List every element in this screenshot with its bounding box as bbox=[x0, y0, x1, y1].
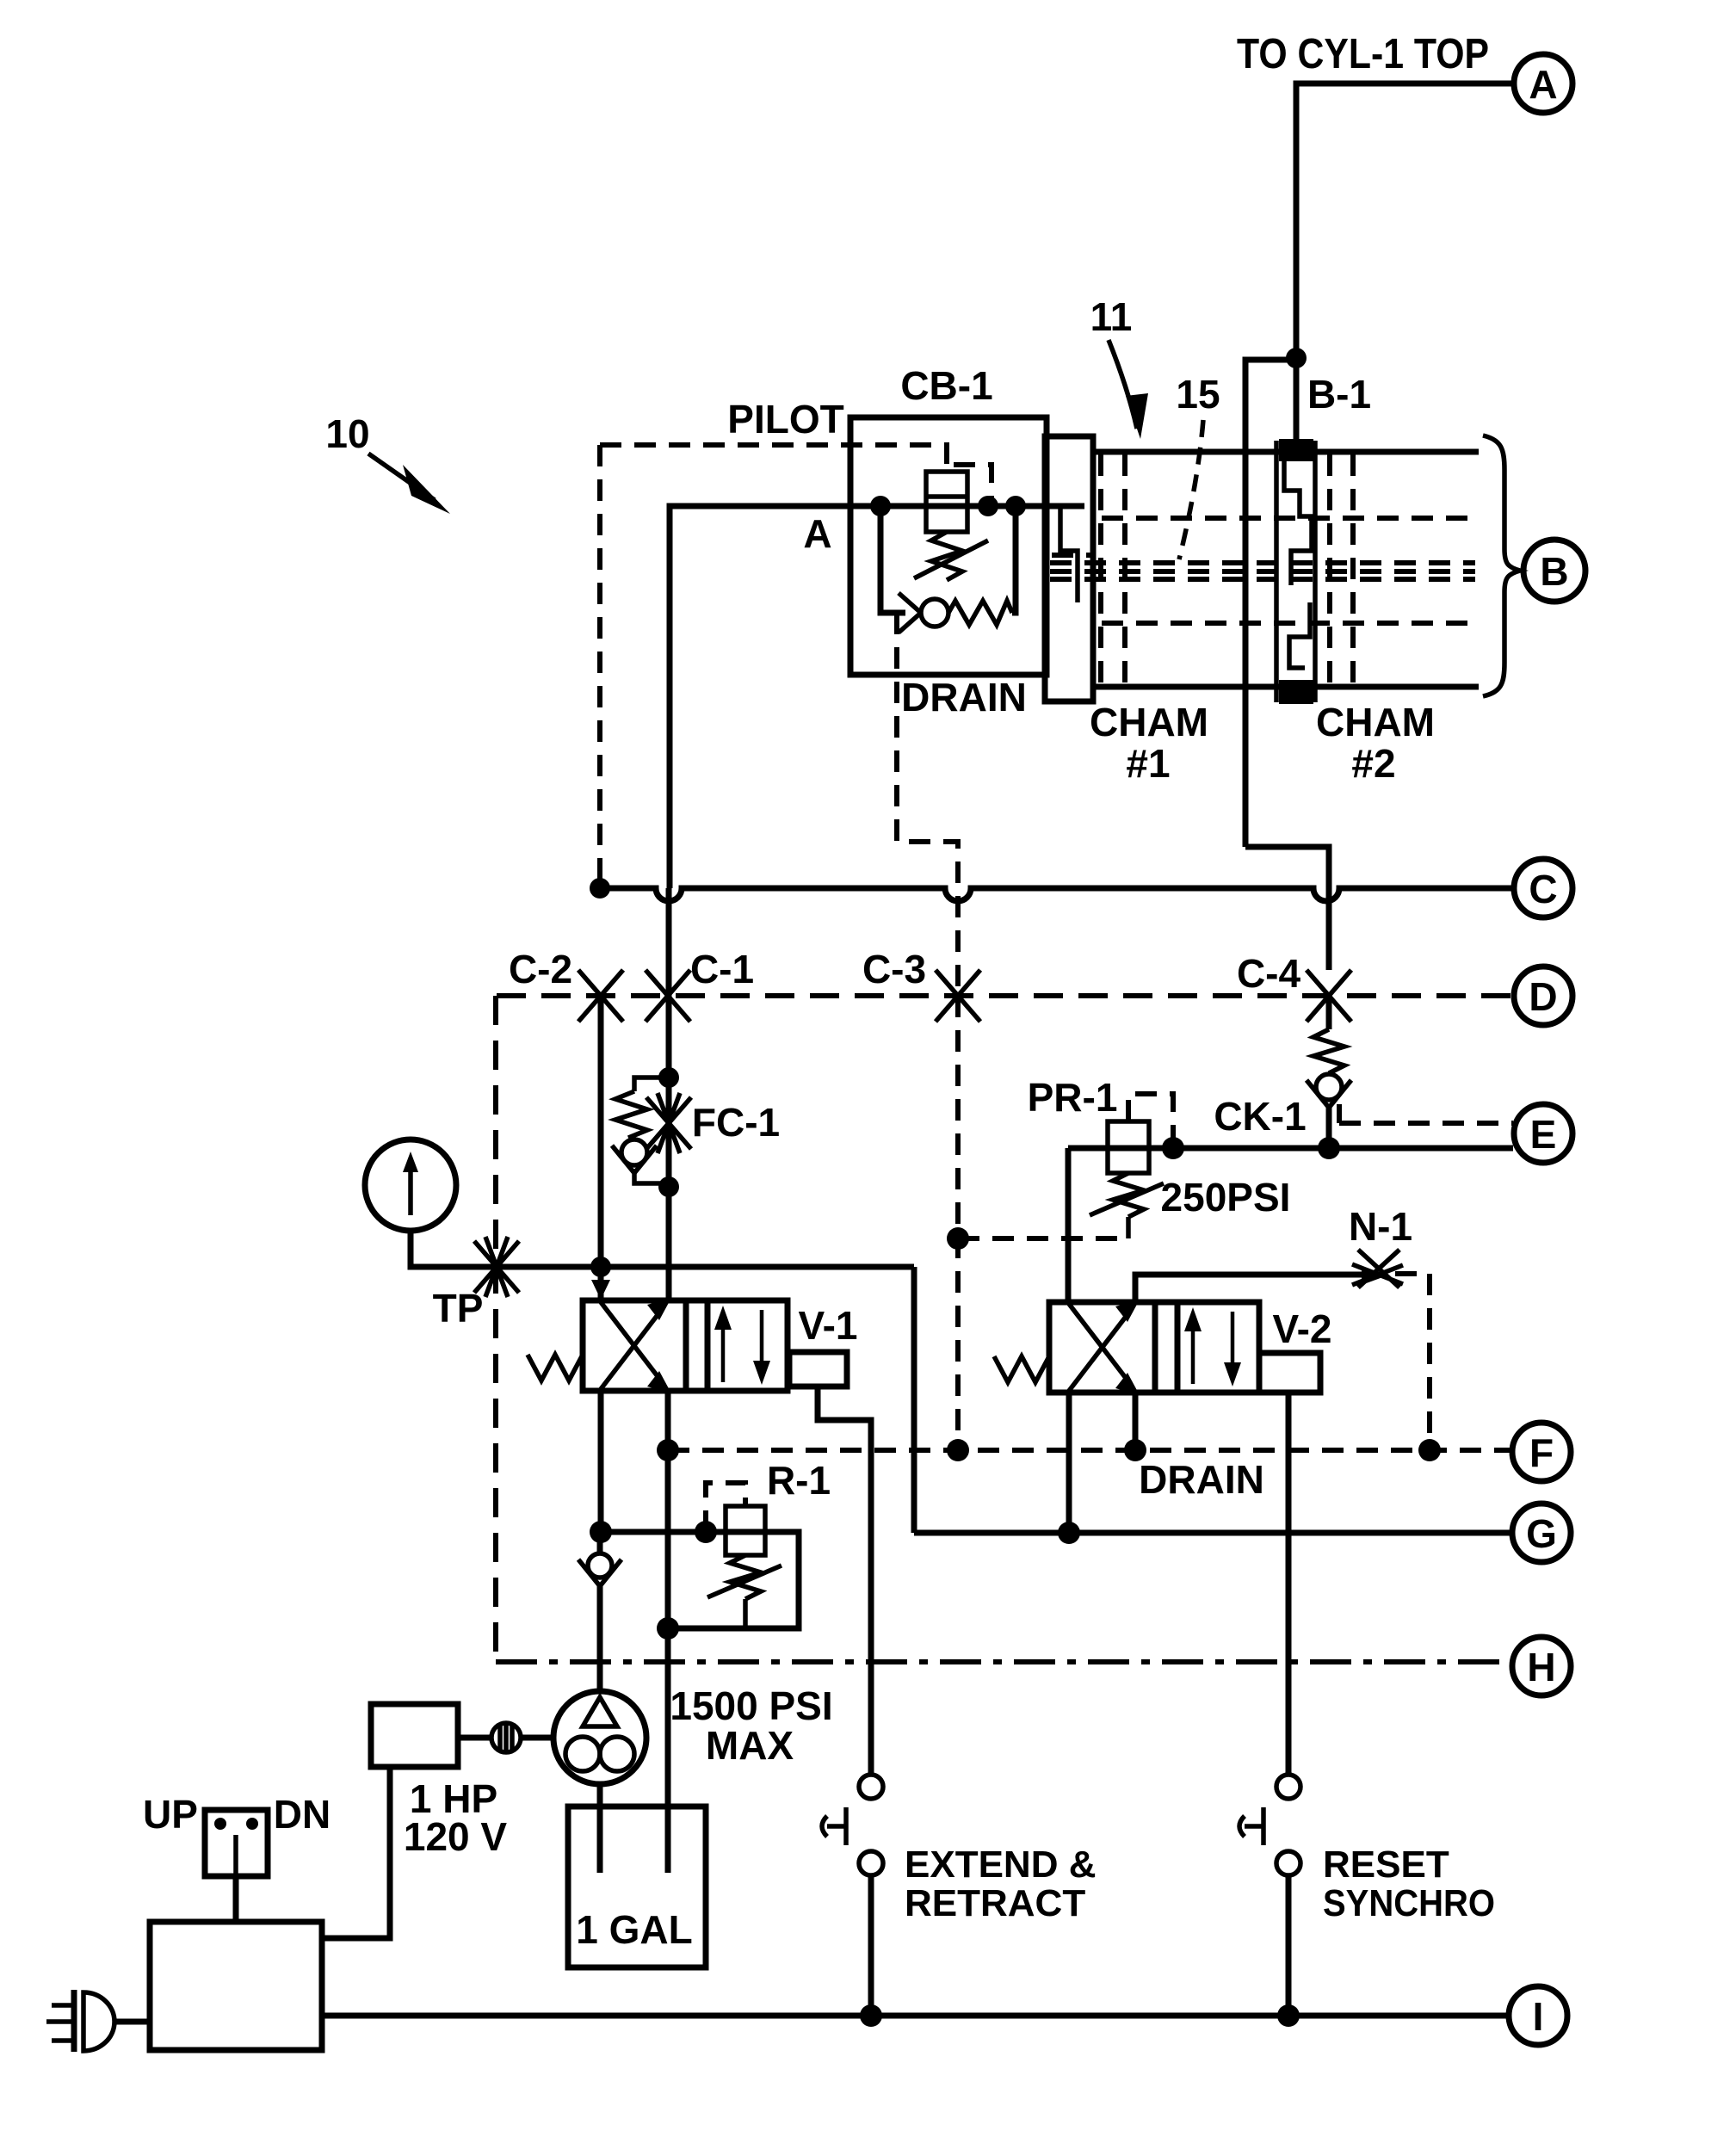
svg-text:E: E bbox=[1530, 1112, 1557, 1157]
node dot I extend bbox=[860, 2004, 882, 2027]
wire C-2 vertical solid bbox=[598, 996, 604, 1267]
relief valve R-1 body bbox=[726, 1506, 765, 1555]
suction check valve bbox=[578, 1532, 621, 1692]
dashed E branch bbox=[1339, 1104, 1513, 1123]
R-1 spring tail bbox=[743, 1599, 748, 1628]
fitting C-2 bbox=[578, 970, 623, 1022]
R-1 spring bbox=[730, 1555, 761, 1599]
wire B-1 line down to gland bbox=[1294, 358, 1300, 444]
svg-text:10: 10 bbox=[325, 411, 369, 456]
wire E line bbox=[1068, 1146, 1513, 1152]
node dot F at V-1 tank bbox=[657, 1439, 679, 1461]
node dot pilot-C junction bbox=[590, 878, 610, 899]
wire to port A bbox=[1296, 83, 1514, 358]
pilot dashed line bbox=[600, 445, 947, 472]
fitting C-4 bbox=[1307, 970, 1351, 1022]
svg-text:#2: #2 bbox=[1351, 741, 1395, 786]
CB-1 right branch wire bbox=[1012, 506, 1016, 613]
port circle A bbox=[1514, 54, 1572, 113]
wire down to G line bbox=[911, 1267, 917, 1533]
svg-text:C-1: C-1 bbox=[690, 947, 754, 991]
V-2 crossed arrows bbox=[1069, 1300, 1140, 1395]
svg-text:FC-1: FC-1 bbox=[692, 1100, 780, 1145]
wire H line dash-dot bbox=[496, 1659, 1512, 1664]
V-1 straight arrows bbox=[714, 1306, 770, 1385]
label 11 with arrow bbox=[1090, 294, 1148, 439]
control box bbox=[150, 1922, 322, 2050]
CB-1 check spring bbox=[948, 601, 1012, 625]
cylinder body bottom wall bbox=[1093, 684, 1479, 690]
svg-text:C-4: C-4 bbox=[1237, 951, 1301, 996]
CB-1 valve element bbox=[926, 472, 967, 532]
V-1 spring bbox=[528, 1355, 583, 1380]
svg-text:TP: TP bbox=[433, 1286, 484, 1331]
label 1500 PSI MAX bbox=[670, 1683, 832, 1768]
head block port channel bbox=[1052, 506, 1091, 602]
label CHAM #1 bbox=[1090, 700, 1208, 786]
tank return stub bbox=[665, 1806, 671, 1873]
svg-text:C-2: C-2 bbox=[509, 947, 572, 991]
pushbutton extend bbox=[822, 1775, 883, 2016]
node dot on C-3 dashed bbox=[947, 1227, 969, 1250]
wire selector stem bbox=[233, 1876, 239, 1922]
CB-1 check valve bbox=[899, 593, 948, 633]
B-1 gland top seal bbox=[1279, 439, 1313, 461]
svg-text:DN: DN bbox=[274, 1792, 331, 1837]
svg-text:RETRACT: RETRACT bbox=[905, 1882, 1085, 1924]
wire D line dashed bbox=[497, 993, 1514, 998]
cylinder end brace bbox=[1483, 435, 1520, 696]
V-1 solenoid bbox=[789, 1352, 847, 1386]
gauge stem bbox=[411, 1231, 914, 1267]
valve V-1 body bbox=[583, 1300, 788, 1391]
svg-text:N-1: N-1 bbox=[1349, 1204, 1412, 1249]
V-1 crossed arrows bbox=[601, 1298, 671, 1393]
wire V-1 P port upper bbox=[598, 1267, 604, 1300]
svg-text:D: D bbox=[1529, 974, 1557, 1019]
wire I line bbox=[322, 2013, 1509, 2019]
svg-text:RESET: RESET bbox=[1323, 1843, 1449, 1886]
pushbutton reset bbox=[1239, 1775, 1300, 2016]
node dot PR-1 pilot junction bbox=[1162, 1137, 1184, 1159]
svg-text:DRAIN: DRAIN bbox=[1139, 1457, 1264, 1502]
FC-1 bypass spring bbox=[615, 1091, 647, 1138]
pressure gauge bbox=[365, 1139, 456, 1231]
B-1 gland left wall bbox=[1274, 441, 1279, 702]
wire from junction to chamber 2 column bbox=[1245, 360, 1296, 847]
FC-1 bypass wire top bbox=[634, 1078, 669, 1091]
node A line corner bbox=[670, 506, 883, 888]
flow arrow into V-1 bbox=[591, 1280, 610, 1300]
svg-text:SYNCHRO: SYNCHRO bbox=[1323, 1882, 1495, 1924]
CB-1 left branch wire bbox=[880, 506, 905, 613]
node dot FC-1 top bbox=[658, 1067, 679, 1088]
node dot pump line left bbox=[590, 1521, 612, 1543]
node junction at B-1 line bbox=[1286, 348, 1307, 368]
svg-text:A: A bbox=[803, 511, 831, 556]
node dot F at N-1 bbox=[1418, 1439, 1441, 1461]
svg-text:B: B bbox=[1540, 549, 1568, 594]
wire C-3 dashed lower bbox=[955, 996, 961, 1450]
svg-text:R-1: R-1 bbox=[767, 1458, 831, 1503]
label EXTEND & RETRACT bbox=[905, 1843, 1096, 1924]
piston 2 seal dashed left bbox=[1327, 454, 1332, 684]
V-2 straight arrows bbox=[1184, 1307, 1241, 1386]
port circle F bbox=[1512, 1423, 1571, 1481]
CB-1 adjust arrow bbox=[914, 540, 988, 578]
needle valve N-1 star bbox=[1352, 1250, 1403, 1288]
svg-text:DRAIN: DRAIN bbox=[901, 675, 1027, 719]
wire V-1 solenoid to switch bbox=[818, 1386, 871, 1775]
node dot CK-1 E junction bbox=[1318, 1137, 1340, 1159]
wire V-2 bottom to F bbox=[1133, 1393, 1139, 1450]
CK-1 check valve bbox=[1307, 1074, 1351, 1108]
port circle D bbox=[1514, 967, 1572, 1025]
piston rod dashed lines bbox=[1050, 563, 1475, 579]
B-1 gland lower channel bbox=[1289, 602, 1310, 668]
label RESET SYNCHRO bbox=[1323, 1843, 1495, 1924]
wire V-2 bottom left to G bbox=[1066, 1393, 1072, 1533]
CB-1 pilot sense dashed bbox=[954, 465, 992, 499]
wire left dashed vertical D to H bbox=[493, 996, 498, 1662]
svg-text:I: I bbox=[1533, 1994, 1544, 2039]
label 10 with arrow bbox=[325, 411, 450, 514]
node dot A-CB1 left bbox=[870, 496, 891, 516]
wire V-2 solenoid to switch bbox=[1286, 1393, 1292, 1775]
cylinder body top wall bbox=[1093, 449, 1479, 455]
svg-text:CK-1: CK-1 bbox=[1214, 1094, 1306, 1139]
dashed N-1 to F bbox=[1395, 1274, 1430, 1450]
CB-1 spring bbox=[931, 532, 962, 580]
svg-text:C-3: C-3 bbox=[862, 947, 926, 991]
svg-text:MAX: MAX bbox=[706, 1723, 794, 1768]
label 1 HP 120 V bbox=[404, 1776, 508, 1859]
wire pump pressure line bbox=[601, 1532, 799, 1628]
svg-text:V-2: V-2 bbox=[1272, 1306, 1331, 1351]
label 15 with leader bbox=[1176, 372, 1220, 559]
wire E to V-2 bbox=[1066, 1148, 1072, 1302]
svg-text:B-1: B-1 bbox=[1307, 372, 1371, 417]
wire check to E junction bbox=[1326, 1104, 1332, 1148]
port circle G bbox=[1512, 1504, 1571, 1562]
node dot CB1 right1 bbox=[978, 496, 998, 516]
svg-text:1 GAL: 1 GAL bbox=[576, 1907, 692, 1952]
wire C line with hops bbox=[600, 888, 1514, 901]
port circle E bbox=[1514, 1104, 1572, 1163]
fitting C-3 bbox=[936, 970, 980, 1022]
svg-text:CB-1: CB-1 bbox=[900, 363, 992, 408]
test point TP star bbox=[474, 1237, 519, 1297]
PR-1 adjust arrow bbox=[1090, 1183, 1164, 1215]
cylinder bore lower dashed bbox=[1102, 621, 1473, 626]
piston 1 seal dashed left bbox=[1098, 454, 1103, 684]
svg-text:EXTEND &: EXTEND & bbox=[905, 1843, 1096, 1886]
svg-text:PR-1: PR-1 bbox=[1028, 1075, 1118, 1120]
node dot TP line junction bbox=[590, 1257, 611, 1277]
dashed PR-1 drain to C-3 bbox=[958, 1236, 1128, 1241]
wire C-1 vertical bbox=[666, 888, 672, 1300]
piston 1 seal dashed right bbox=[1122, 454, 1127, 684]
CK-1 spring bbox=[1313, 1029, 1344, 1073]
svg-text:G: G bbox=[1526, 1511, 1557, 1556]
FC-1 bypass wire bottom bbox=[634, 1169, 669, 1183]
port circle I bbox=[1509, 1986, 1567, 2045]
counterbalance valve CB-1 body bbox=[850, 417, 1047, 675]
motor coupling bbox=[458, 1723, 553, 1752]
wire V-1 bottom left port bbox=[598, 1391, 604, 1532]
port circle B bbox=[1523, 540, 1585, 602]
hydraulic pump bbox=[553, 1691, 646, 1784]
B-1 gland bottom seal bbox=[1279, 680, 1313, 704]
B-1 gland upper channel bbox=[1284, 461, 1312, 585]
svg-text:250PSI: 250PSI bbox=[1161, 1175, 1291, 1220]
svg-text:F: F bbox=[1529, 1430, 1554, 1475]
svg-text:PILOT: PILOT bbox=[727, 397, 843, 442]
node dot R-1 inlet bbox=[695, 1521, 717, 1543]
B-1 gland right wall bbox=[1313, 441, 1318, 702]
node dot FC-1 bottom bbox=[658, 1176, 679, 1197]
valve V-2 body bbox=[1049, 1302, 1259, 1393]
svg-text:TO CYL-1 TOP: TO CYL-1 TOP bbox=[1237, 31, 1489, 77]
PR-1 pilot dashed bbox=[1128, 1094, 1173, 1145]
node dot F at C-3 bbox=[947, 1439, 969, 1461]
svg-text:C: C bbox=[1529, 867, 1557, 911]
svg-text:CHAM: CHAM bbox=[1090, 700, 1208, 744]
svg-text:H: H bbox=[1527, 1645, 1555, 1689]
flow control FC-1 star bbox=[646, 1093, 691, 1153]
UP/DN selector box bbox=[205, 1810, 268, 1876]
reservoir tank bbox=[568, 1806, 706, 1967]
wire G line bbox=[914, 1530, 1512, 1536]
electric motor box bbox=[371, 1704, 458, 1767]
svg-text:#1: #1 bbox=[1126, 741, 1170, 786]
label CHAM #2 bbox=[1316, 700, 1435, 786]
svg-text:A: A bbox=[1529, 62, 1557, 107]
R-1 pilot dashed bbox=[706, 1483, 745, 1532]
PR-1 spring tail bbox=[1126, 1217, 1131, 1238]
pressure reducing valve PR-1 body bbox=[1108, 1121, 1149, 1173]
fitting C-1 bbox=[646, 970, 690, 1022]
wire F drain line dashed bbox=[668, 1448, 1512, 1453]
port circle C bbox=[1514, 859, 1572, 917]
svg-text:CHAM: CHAM bbox=[1316, 700, 1435, 744]
port circle H bbox=[1512, 1637, 1571, 1695]
node dot CB1 right2 bbox=[1005, 496, 1026, 516]
wire C-4 to spring bbox=[1326, 996, 1332, 1029]
svg-text:1500 PSI: 1500 PSI bbox=[670, 1683, 832, 1728]
wire motor to control box bbox=[322, 1767, 390, 1938]
piston 2 seal dashed right bbox=[1350, 454, 1356, 684]
V-2 spring bbox=[994, 1356, 1049, 1382]
cylinder head block bbox=[1045, 436, 1093, 701]
PR-1 spring bbox=[1113, 1173, 1144, 1217]
wire V-2 to N-1 bbox=[1135, 1275, 1365, 1302]
wire pump to tank bbox=[597, 1784, 603, 1873]
V-2 solenoid bbox=[1259, 1353, 1320, 1393]
svg-text:120 V: 120 V bbox=[404, 1814, 508, 1859]
cylinder bore upper dashed bbox=[1102, 516, 1473, 521]
node dot G at V-2 bbox=[1058, 1522, 1080, 1544]
wire V-1 bottom tank port bbox=[665, 1391, 671, 1873]
R-1 adjust arrow bbox=[707, 1566, 782, 1597]
svg-text:UP: UP bbox=[143, 1792, 198, 1837]
node dot F at V-2 bbox=[1124, 1439, 1146, 1461]
svg-text:11: 11 bbox=[1090, 294, 1133, 339]
svg-text:15: 15 bbox=[1176, 372, 1220, 417]
svg-text:V-1: V-1 bbox=[798, 1303, 857, 1348]
CB-1 drain dashed bbox=[897, 613, 958, 996]
power plug bbox=[46, 1990, 150, 2052]
FC-1 bypass check valve bbox=[612, 1139, 657, 1173]
wire chamber2 to C-4 bbox=[1245, 847, 1329, 970]
node dot I reset bbox=[1277, 2004, 1300, 2027]
node dot R-1 return bbox=[657, 1617, 679, 1640]
wire pilot dashed vertical bbox=[597, 445, 602, 888]
wire A line through CB-1 bbox=[880, 503, 1084, 510]
